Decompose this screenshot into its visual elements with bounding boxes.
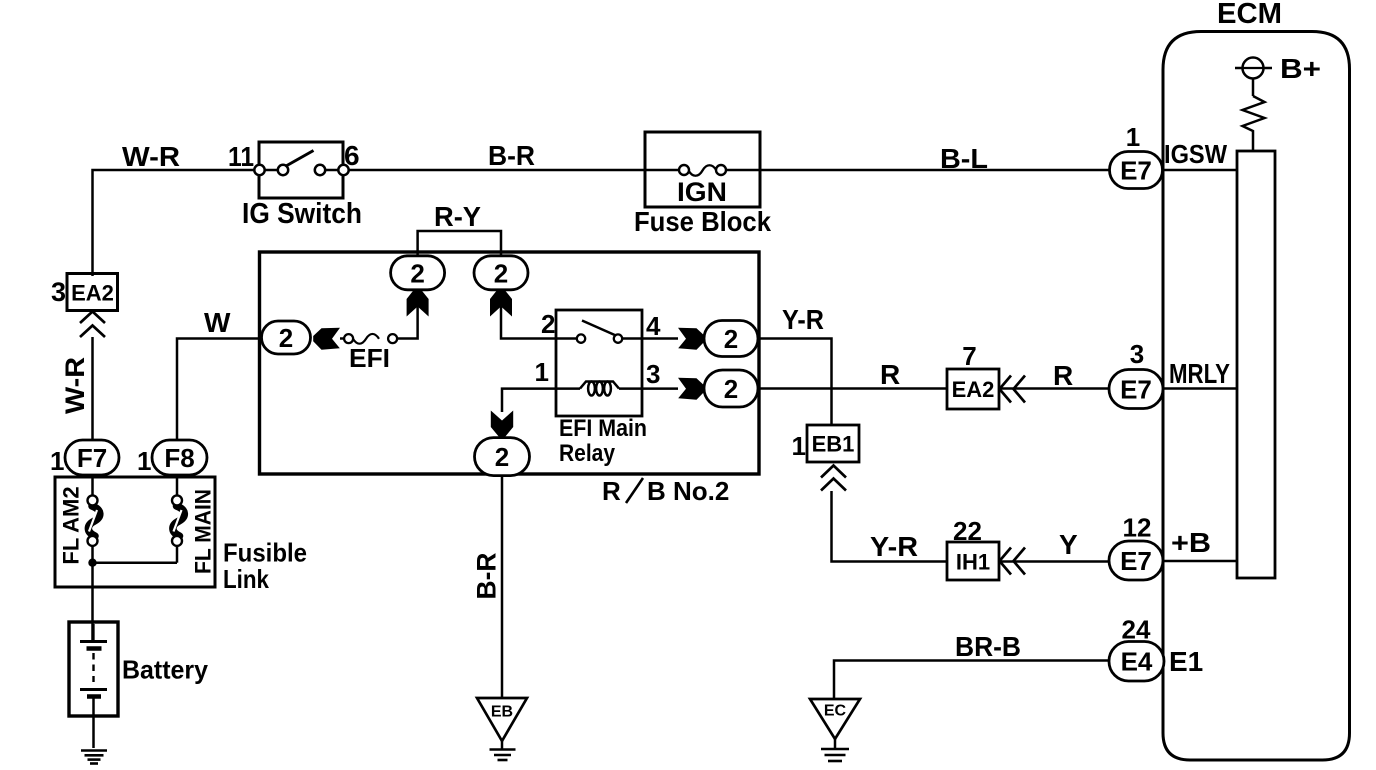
svg-text:B+: B+	[1280, 53, 1321, 84]
svg-text:EB1: EB1	[812, 432, 855, 457]
svg-text:Fusible: Fusible	[223, 538, 307, 568]
svg-text:IGN: IGN	[677, 177, 727, 207]
svg-text:Battery: Battery	[122, 655, 209, 685]
svg-text:Y: Y	[1059, 529, 1078, 560]
svg-text:24: 24	[1122, 615, 1151, 645]
svg-text:ECM: ECM	[1217, 0, 1282, 30]
svg-text:EFI: EFI	[349, 343, 390, 373]
svg-text:2: 2	[724, 324, 738, 354]
svg-text:3: 3	[646, 359, 660, 389]
svg-text:B-R: B-R	[488, 140, 535, 171]
svg-text:2: 2	[495, 442, 509, 472]
svg-text:FL AM2: FL AM2	[59, 486, 84, 564]
svg-text:B-R: B-R	[472, 553, 502, 600]
svg-text:7: 7	[962, 341, 976, 371]
svg-text:Relay: Relay	[559, 440, 616, 467]
svg-text:Link: Link	[223, 564, 269, 594]
svg-text:3: 3	[1130, 339, 1144, 369]
svg-text:2: 2	[279, 323, 293, 353]
svg-text:B No.2: B No.2	[647, 476, 729, 506]
svg-text:EFI Main: EFI Main	[559, 415, 647, 442]
svg-text:F8: F8	[164, 443, 194, 473]
svg-text:6: 6	[344, 140, 360, 171]
svg-text:F7: F7	[77, 443, 107, 473]
svg-text:IG Switch: IG Switch	[242, 198, 362, 230]
svg-text:2: 2	[724, 374, 738, 404]
svg-text:3: 3	[51, 277, 66, 307]
svg-text:E7: E7	[1120, 546, 1152, 576]
svg-text:R: R	[1053, 360, 1073, 391]
svg-text:IH1: IH1	[956, 550, 990, 575]
svg-text:2: 2	[410, 258, 424, 288]
svg-text:EA2: EA2	[71, 281, 114, 306]
svg-text:W-R: W-R	[122, 141, 180, 172]
svg-text:E7: E7	[1120, 375, 1152, 405]
svg-text:1: 1	[1126, 122, 1140, 152]
svg-text:W: W	[204, 307, 231, 338]
svg-text:12: 12	[1123, 513, 1152, 543]
svg-text:EB: EB	[491, 704, 513, 721]
svg-text:FL MAIN: FL MAIN	[191, 489, 216, 574]
svg-text:+B: +B	[1171, 527, 1211, 558]
svg-text:1: 1	[535, 357, 549, 387]
svg-text:W-R: W-R	[60, 357, 90, 414]
svg-text:22: 22	[953, 516, 982, 546]
svg-text:B-L: B-L	[940, 143, 988, 174]
svg-text:2: 2	[541, 309, 555, 339]
svg-text:Y-R: Y-R	[870, 531, 918, 562]
svg-text:E1: E1	[1169, 646, 1203, 677]
svg-text:1: 1	[137, 446, 151, 476]
svg-text:R: R	[602, 476, 621, 506]
svg-text:MRLY: MRLY	[1169, 358, 1230, 389]
svg-text:1: 1	[792, 431, 806, 461]
svg-text:4: 4	[646, 311, 661, 341]
svg-text:2: 2	[494, 258, 508, 288]
svg-text:11: 11	[228, 141, 254, 172]
svg-text:EA2: EA2	[952, 377, 995, 402]
svg-text:1: 1	[50, 446, 64, 476]
svg-text:E4: E4	[1121, 647, 1153, 677]
svg-text:IGSW: IGSW	[1164, 139, 1227, 169]
svg-text:EC: EC	[824, 703, 847, 720]
svg-text:R-Y: R-Y	[434, 201, 481, 232]
svg-text:R: R	[880, 359, 900, 390]
svg-text:Y-R: Y-R	[782, 304, 824, 335]
svg-text:E7: E7	[1120, 156, 1152, 186]
svg-text:Fuse Block: Fuse Block	[634, 206, 771, 237]
svg-text:BR-B: BR-B	[955, 631, 1021, 662]
